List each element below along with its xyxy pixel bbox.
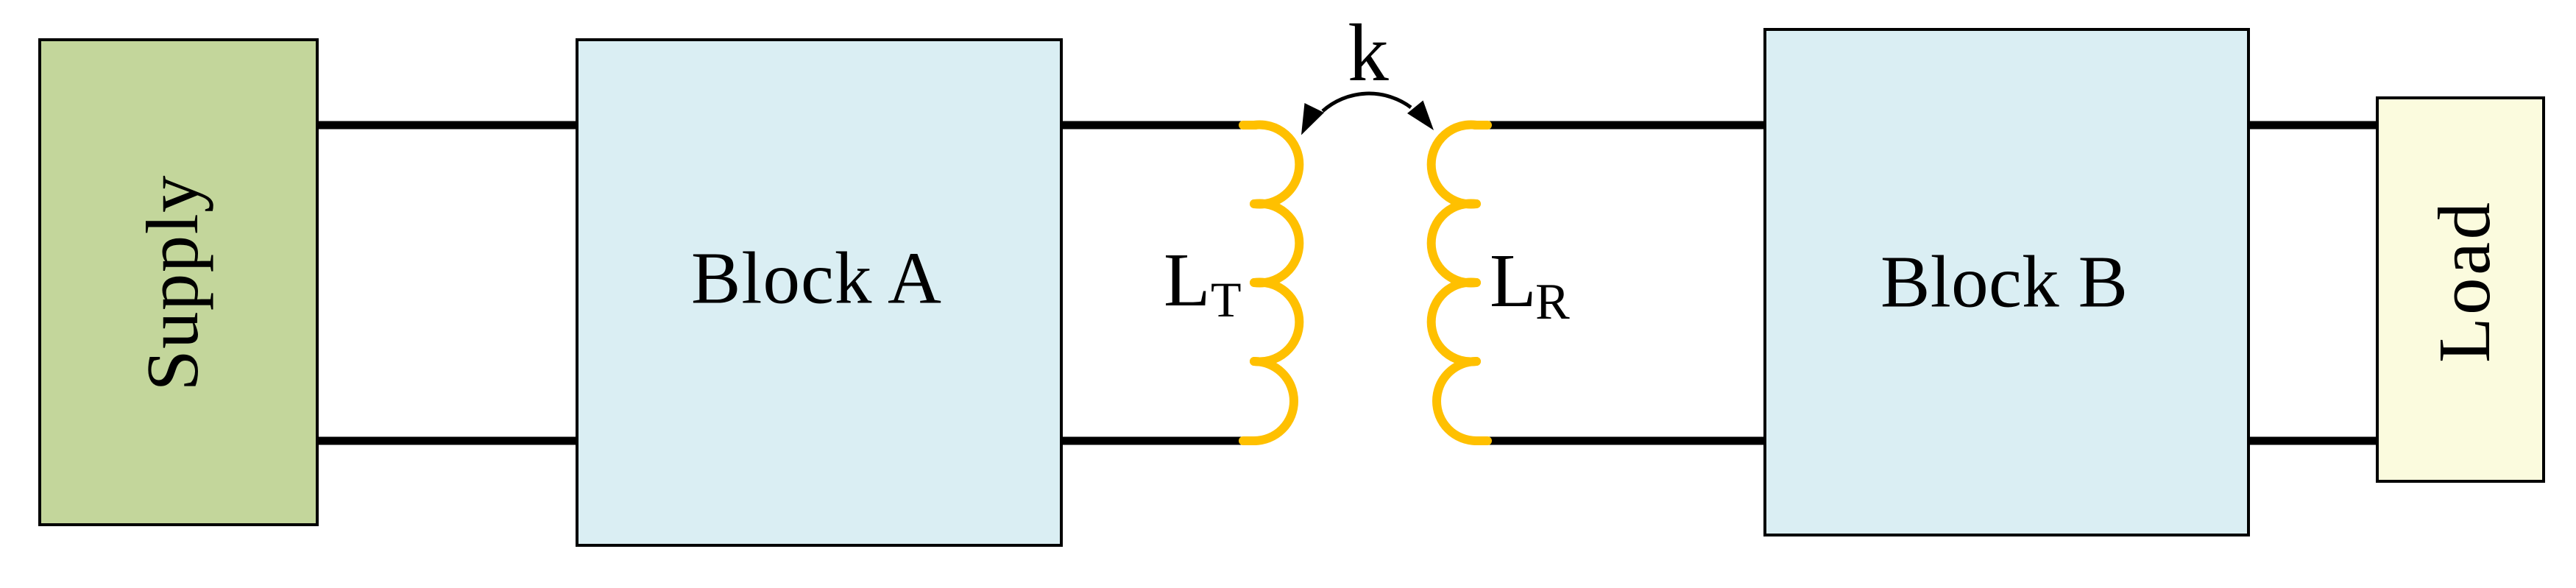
svg-text:Block A: Block A <box>691 237 941 319</box>
svg-text:k: k <box>1348 8 1389 99</box>
svg-text:Block B: Block B <box>1880 241 2128 323</box>
svg-text:T: T <box>1211 272 1242 327</box>
svg-text:R: R <box>1535 274 1570 330</box>
svg-text:Load: Load <box>2423 202 2505 363</box>
svg-text:L: L <box>1490 238 1537 323</box>
svg-text:Supply: Supply <box>131 175 213 392</box>
svg-text:L: L <box>1164 238 1211 322</box>
